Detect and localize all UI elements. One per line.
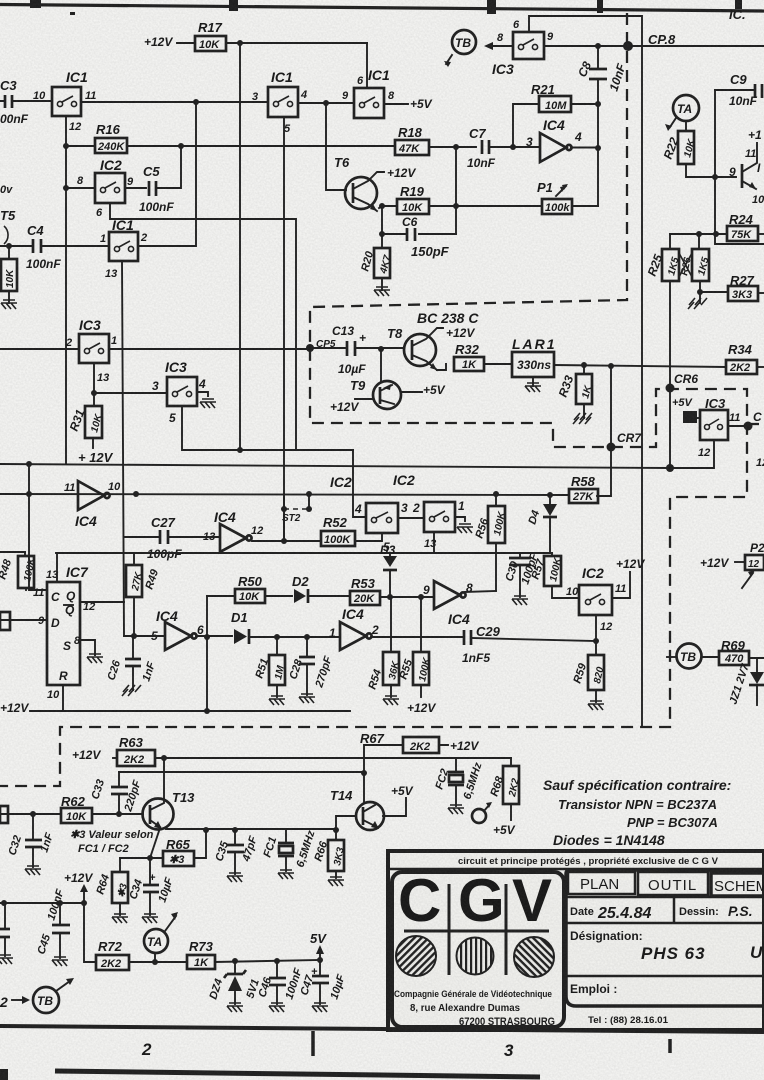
wire IC3c pin5 down to row	[182, 406, 353, 450]
wire IC4c out to D1	[196, 635, 232, 637]
wire IC3d pin11 to CP node	[728, 425, 747, 427]
node dot (456,206)	[453, 203, 459, 209]
node dot (84,903)	[81, 900, 87, 906]
resistor R21	[531, 82, 571, 112]
capacitor C8	[575, 46, 629, 103]
ground (IC3c pin4)	[200, 399, 216, 408]
CGV divider bar 1	[448, 884, 451, 975]
wire LAR1 output to R34	[554, 365, 726, 367]
wire IC7 pin13	[56, 553, 58, 582]
wire R24 left	[670, 233, 727, 235]
ground (C47)	[312, 1003, 328, 1012]
wire x207 vertical	[206, 596, 208, 711]
ground (R51)	[269, 696, 285, 705]
node dot (496,494)	[493, 491, 499, 497]
ground (R15)	[1, 300, 17, 309]
ground (FC2)	[448, 805, 464, 814]
transistor T14	[330, 773, 406, 830]
wire node to T6 base	[326, 103, 346, 190]
ground (R66)	[328, 877, 344, 886]
ground (R26)	[688, 298, 707, 309]
wire R26 bottom to ground node	[699, 281, 701, 303]
node dot (309,494)	[306, 491, 312, 497]
wire R16 to R18 net	[127, 145, 395, 147]
analog switch IC3b	[79, 317, 109, 363]
resistor R63	[113, 735, 155, 766]
node dot (94,393)	[91, 390, 97, 396]
capacitor C7	[467, 126, 540, 170]
wire IC1a pin12 down	[65, 116, 67, 464]
pin 8 arrow (IC3a)	[484, 32, 513, 50]
resistor R33 (vertical)	[556, 365, 595, 418]
wire T13 collector	[163, 758, 165, 800]
wire IC7 pin9 to edge	[0, 619, 47, 621]
jumper ST2	[281, 494, 312, 524]
ground (R54)	[383, 696, 399, 705]
analog switch IC3a	[492, 32, 544, 77]
wire +12V down to R72	[84, 903, 96, 962]
capacitor C33	[89, 772, 143, 814]
node dot (4,903)	[1, 900, 7, 906]
analog switch IC3c	[165, 359, 197, 406]
resistor R16	[95, 122, 127, 153]
node dot (181,146)	[178, 143, 184, 149]
CGV circle 2 (hatched)	[457, 938, 494, 975]
node dot (598,148)	[595, 145, 601, 151]
node dot (66,146)	[63, 143, 69, 149]
op-amp IC4 inverter (5-6)	[156, 608, 197, 650]
ground (left edge cap)	[0, 955, 13, 964]
connector box (left edge R62)	[0, 806, 8, 823]
node dot (134,636)	[131, 633, 137, 639]
label +12V (arrow)	[64, 871, 93, 903]
delay line LAR1	[512, 336, 557, 386]
node dot (240,450)	[237, 447, 243, 453]
wire ST2 down to IC4b output	[283, 509, 285, 541]
fold mark bar right	[668, 1039, 672, 1053]
ground (IC2c pin1)	[457, 524, 473, 533]
wire CP5 net	[0, 348, 310, 350]
node dot (235,830)	[232, 827, 238, 833]
wire +12V to R17	[177, 42, 195, 44]
wire IC1b pin5 down	[283, 117, 285, 541]
ground (C32)	[25, 866, 41, 875]
node dot x240 top	[237, 40, 243, 46]
fold mark 1 (bar)	[311, 1031, 315, 1056]
resistor R34	[726, 342, 764, 374]
wire IC4d out to C29	[371, 636, 462, 638]
node dot (277,961)	[274, 958, 280, 964]
resistor R73	[187, 939, 320, 969]
op-amp IC4 inverter (3-4)	[540, 117, 598, 162]
node dot (136,494)	[133, 491, 139, 497]
connector box (left edge pin9)	[0, 612, 10, 630]
wire pin8 to +5V	[384, 103, 408, 105]
capacitor C47	[298, 960, 347, 1004]
bottom border line	[0, 1026, 764, 1032]
top border line	[0, 5, 764, 12]
wire pin4 to ground	[197, 392, 208, 396]
node dot (326,104)	[323, 100, 329, 106]
CGV circle 1 (hatched)	[396, 936, 436, 976]
wire vertical x240	[239, 43, 241, 450]
title block outer frame	[388, 851, 764, 1030]
wire vertical x367 into IC1 pin6	[366, 43, 368, 88]
resistor R69	[702, 638, 764, 665]
CGV divider bar 2	[505, 884, 508, 975]
wire long net y465	[0, 464, 670, 468]
resistor R19	[397, 184, 429, 214]
node CP.8 junction (big)	[623, 41, 633, 51]
ground (C26)	[122, 685, 141, 696]
wire R19 to P1 net	[429, 205, 542, 207]
resistor R51 (vertical)	[253, 637, 287, 697]
node dot (670,468) big	[666, 464, 674, 472]
crystal FC1	[261, 829, 317, 871]
node dot (207,637)	[204, 634, 210, 640]
wire IC2d pin12 down	[595, 615, 597, 655]
node dot (598,46)	[595, 43, 601, 49]
wire IC4b out to R52	[252, 540, 321, 542]
ground (FC1)	[278, 870, 294, 879]
node dot (164,758)	[161, 755, 167, 761]
node dot (382,206)	[379, 203, 385, 209]
ground (R33)	[573, 413, 592, 424]
wire vertical x643 (pin6 loop down)	[641, 46, 643, 727]
test point TB (bottom left)	[33, 978, 74, 1013]
node CP5	[306, 344, 314, 352]
CGV horizontal bar	[404, 930, 549, 933]
capacitor C30	[503, 552, 540, 597]
resistor R15 (left edge, vertical)	[1, 246, 17, 303]
op-amp IC4 inverter (1-2)	[340, 606, 372, 650]
wire rail1 y758	[155, 757, 511, 759]
node dot (716,234)	[713, 231, 719, 237]
pin 10 blob	[683, 411, 700, 423]
resistor R18	[395, 125, 429, 155]
analog switch IC1d	[354, 67, 390, 118]
wire vertical x196 to IC1c pin2	[138, 102, 196, 246]
wire T6 emitter to R19	[382, 205, 397, 207]
zener JZ1 (right edge)	[727, 658, 764, 706]
wire R21 loop	[513, 104, 598, 147]
node dot (336,830)	[333, 827, 339, 833]
wire IC7 pin12 to x124	[80, 601, 124, 603]
wire CP.8 line	[544, 45, 764, 47]
resistor R62	[61, 794, 92, 823]
node dot (456,147)	[453, 144, 459, 150]
capacitor (left edge cut)	[0, 903, 10, 956]
analog switch IC2a	[95, 157, 125, 203]
test point TA (top)	[665, 95, 699, 131]
wire R48 top from edge	[0, 551, 25, 553]
node dot (206,830)	[203, 827, 209, 833]
node dot (611,366)	[608, 363, 614, 369]
capacitor C3 (left edge)	[0, 78, 52, 126]
dashed stub right edge	[747, 423, 764, 425]
designation divider	[566, 975, 764, 978]
wire IC2c pin13 down	[433, 532, 435, 553]
op-amp IC4 inverter (13-12)	[214, 509, 252, 552]
resistor R59 (vertical)	[571, 655, 606, 702]
resistor R53	[350, 576, 434, 605]
wire rail2 y772	[119, 771, 364, 773]
analog switch IC1c	[109, 217, 138, 261]
transistor T9	[350, 346, 422, 409]
wire vertical x456	[455, 147, 457, 234]
op-amp IC4 inverter (11-10)	[75, 481, 110, 529]
potentiometer P1	[537, 180, 598, 214]
wire x353 down to IC2a pin4	[353, 450, 366, 517]
wire IC3b pin13 down	[94, 363, 167, 393]
scan noise overlay	[0, 0, 1, 1]
node dot (700,292)	[697, 289, 703, 295]
resistor R50	[207, 574, 292, 603]
diode D2	[292, 574, 350, 603]
resistor R26 (vertical)	[679, 234, 712, 281]
wire IC7 pin11	[29, 556, 47, 590]
resistor R31 (vertical)	[67, 393, 105, 448]
node dot (598,104)	[595, 101, 601, 107]
bottom sheet edge line	[55, 1071, 540, 1077]
ground (R20)	[374, 287, 390, 296]
resistor R22 (vertical)	[661, 121, 736, 177]
ground (LAR1)	[525, 383, 541, 392]
label 2 arrow (bottom left)	[0, 994, 30, 1010]
wire IC3a pin6 loop	[529, 16, 642, 46]
node dot (277,637)	[274, 634, 280, 640]
CGV circle 3 (hatched)	[514, 937, 554, 977]
capacitor C46	[256, 961, 304, 1004]
wire pin11 to +12	[612, 572, 630, 598]
resistor R17	[195, 20, 226, 51]
node dot (382,234)	[379, 231, 385, 237]
CGV logo box	[392, 872, 564, 1027]
resistor R27	[700, 273, 764, 301]
wire emitter node y858	[120, 857, 163, 859]
transistor T6	[334, 155, 384, 211]
resistor R52	[321, 515, 382, 546]
capacitor C28	[287, 637, 334, 695]
wire R62 to T13 base	[92, 813, 143, 815]
node dot (29,465)	[26, 461, 32, 467]
ground (R64)	[112, 914, 128, 923]
potentiometer P2 (right edge)	[735, 541, 764, 588]
resistor R20	[359, 248, 393, 290]
node CR6	[666, 384, 675, 393]
node dot (284,541)	[281, 538, 287, 544]
resistor R24	[727, 212, 764, 241]
node dot (29,494)	[26, 491, 32, 497]
wire +12V node y903	[0, 902, 84, 904]
node dot (584,366)	[581, 362, 587, 368]
flip-flop IC7	[47, 564, 89, 685]
capacitor C4	[0, 223, 109, 271]
node dot (66,188)	[63, 185, 69, 191]
node dot (150,858)	[147, 855, 153, 861]
wire to R16	[66, 145, 95, 147]
wire IC7 pin10 down	[62, 685, 64, 711]
wire IC2a pin8	[66, 187, 95, 189]
capacitor C45	[35, 888, 70, 958]
wire long net y494	[0, 494, 569, 495]
resistor R65	[163, 830, 206, 866]
node dot (550,495)	[547, 492, 553, 498]
resistor R67	[364, 737, 448, 773]
capacitor C32	[6, 814, 56, 867]
ground (C46)	[269, 1003, 285, 1012]
node dot (364,773)	[361, 770, 367, 776]
ground (C45)	[52, 957, 68, 966]
label 5V (arrow)	[310, 931, 327, 960]
capacitor C13	[314, 324, 404, 376]
transistor T7 (right edge, cut)	[729, 143, 764, 206]
node dot (155,962)	[152, 959, 158, 965]
node dot (307,637)	[304, 634, 310, 640]
test point TA (bottom)	[144, 912, 178, 962]
node dot (207,711)	[204, 708, 210, 714]
resistor R25 (vertical)	[645, 234, 682, 281]
capacitor C29	[462, 624, 596, 665]
wire pin11 to IC1b pin3	[81, 101, 268, 103]
wire T6 emitter down to R20	[381, 206, 383, 248]
dashed region border (top vertical x627)	[0, 13, 747, 786]
diode D3 (vertical)	[380, 543, 397, 597]
resistor R49 (vertical)	[126, 553, 161, 636]
node dot (320,960)	[317, 957, 323, 963]
wire R18 to C7	[429, 146, 476, 148]
wire vertical x598	[597, 104, 599, 206]
node dot (748,426) big	[744, 422, 753, 431]
bottom left corner blob	[0, 1069, 8, 1080]
SCHEM box	[711, 873, 764, 896]
wire R17 to node	[226, 42, 367, 44]
crystal FC2	[433, 758, 484, 806]
node CR7	[607, 443, 616, 452]
diode D4 (vertical)	[526, 495, 557, 553]
right section box	[566, 870, 764, 1006]
OUTIL box	[638, 872, 708, 895]
capacitor C35	[213, 830, 259, 874]
ground (DZ4)	[227, 1003, 243, 1012]
node dot (60,903)	[57, 900, 63, 906]
node dot (390,597)	[387, 594, 393, 600]
wire IC2b to IC2c	[398, 517, 424, 519]
resistor R64 (vertical)	[94, 858, 129, 915]
analog switch IC1a	[52, 69, 88, 116]
resistor R55 (vertical)	[397, 594, 433, 697]
op-amp IC4 inverter (9-8)	[434, 581, 470, 627]
node dot (235,961)	[232, 958, 238, 964]
transistor T5 (cut at edge)	[4, 226, 8, 244]
node dot (513,147)	[510, 144, 516, 150]
test point circle (FC2)	[472, 802, 492, 823]
date row dividers	[566, 897, 764, 923]
transistor T13	[143, 790, 196, 858]
diode D1	[231, 610, 340, 644]
wire pin9 to C5	[125, 187, 146, 189]
resistor R68 (vertical)	[488, 758, 521, 820]
capacitor C34	[127, 858, 175, 915]
zener DZ4	[207, 961, 261, 1004]
node dot (699,234)	[696, 231, 702, 237]
wire R62 left to edge	[0, 813, 61, 815]
node dot (715,177)	[712, 174, 718, 180]
resistor R56 (vertical)	[473, 494, 508, 591]
wire R25 bottom to CR6 vertical	[669, 281, 671, 469]
wire long net y553	[56, 552, 552, 554]
node dot x196	[193, 99, 199, 105]
ground (C28)	[299, 694, 315, 703]
wire IC1c pin13 down long	[122, 261, 124, 636]
resistor R66 (vertical)	[312, 830, 346, 878]
resistor R54 (vertical)	[366, 597, 401, 697]
analog switch IC2c	[424, 502, 455, 532]
title strip divider	[388, 868, 764, 871]
capacitor C5	[139, 146, 181, 214]
analog switch IC1b	[268, 69, 298, 117]
wire x29 vertical	[28, 464, 30, 556]
analog switch IC3d	[700, 396, 728, 440]
wire IC1b pin4 to IC1d pin9	[298, 102, 354, 104]
wire IC4c input	[124, 635, 165, 637]
wire rail3 y830	[166, 828, 336, 830]
node dot (33,814)	[30, 811, 36, 817]
analog switch IC2b	[366, 503, 398, 533]
wire C9 down to base node	[715, 90, 764, 244]
wire CR7 vertical	[597, 366, 611, 496]
cut-off title glyph marks	[30, 0, 41, 8]
resistor R57 (vertical)	[529, 553, 579, 598]
analog switch IC2d	[579, 565, 612, 615]
resistor R32	[454, 342, 512, 371]
wire IC4e out	[465, 591, 496, 592]
ground (C34)	[142, 914, 158, 923]
ground (IC7 pin8)	[87, 654, 103, 663]
test point TB (top)	[444, 30, 476, 67]
transistor T8	[387, 326, 446, 370]
PLAN box	[568, 872, 635, 894]
node dot (596,641)	[593, 638, 599, 644]
ground (C30)	[512, 596, 528, 605]
resistor R58	[569, 474, 598, 503]
ground (R59)	[588, 701, 604, 710]
node dot (119,814)	[116, 811, 122, 817]
wire IC2a pin6	[110, 203, 296, 450]
ground (C35)	[227, 873, 243, 882]
resistor R48 (vertical)	[0, 552, 38, 590]
node dot (9,246)	[6, 243, 12, 249]
capacitor C27	[124, 515, 220, 561]
capacitor C6	[382, 215, 456, 259]
wire T14 base left	[336, 816, 356, 830]
test point TB (mid right)	[667, 644, 702, 669]
capacitor C9	[715, 72, 762, 108]
wire net y711	[30, 710, 350, 712]
wire IC7 pin8 to ground	[80, 640, 95, 655]
capacitor C26	[105, 636, 158, 690]
wire pin1 to ground	[455, 517, 465, 521]
resistor R72	[96, 939, 187, 970]
wire IC3d pin12 down to node	[670, 440, 714, 468]
